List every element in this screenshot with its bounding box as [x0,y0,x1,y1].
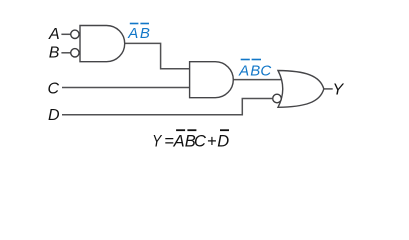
svg-text:D: D [217,132,229,150]
svg-text:B: B [49,45,60,62]
svg-text:Y: Y [152,132,163,150]
wire D [62,99,272,115]
svg-text:A: A [238,63,249,80]
AND gate U1 [80,26,125,62]
wire A input stub [61,33,70,35]
svg-text:A: A [127,25,138,42]
svg-text:C: C [194,132,206,150]
inverter bubble on B [71,49,79,57]
node label ABC-bar (blue) [238,59,271,80]
wire from AND2 output to OR top input [233,79,282,81]
wire from AND1 output to AND2 top input [125,43,190,68]
svg-text:B: B [250,63,260,80]
svg-text:+: + [207,132,217,150]
AND gate U2 [190,62,234,98]
svg-text:D: D [48,107,60,124]
inverter bubble on A [71,30,79,38]
svg-text:A: A [48,26,60,43]
svg-text:A: A [173,132,185,150]
svg-text:Y: Y [333,82,345,99]
node label AB-bar (blue) [127,23,150,43]
OR gate U3 [278,71,324,108]
inverter bubble on OR D-input [273,94,282,103]
svg-text:C: C [48,80,60,97]
wire C [62,87,190,89]
equation Y = AB-bar C + D-bar [152,129,229,150]
wire B input stub [61,52,70,54]
svg-text:C: C [260,63,271,80]
wire Y output [324,88,333,90]
svg-text:B: B [140,25,150,42]
